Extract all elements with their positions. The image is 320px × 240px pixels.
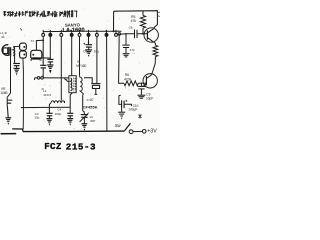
node: junction circle on base wire (x=119.3) with long vertical to R6	[118, 33, 124, 84]
svg-text:C8: C8	[129, 26, 133, 30]
svg-text:+3V: +3V	[147, 129, 157, 135]
label C9 10uF	[146, 93, 153, 101]
labels 2k / MF450	[76, 60, 86, 69]
battery jog at left end of bus	[12, 129, 23, 132]
wire: pin9 to C8 to Q1 base (y=33.8)	[117, 33, 147, 36]
IC U1 pins 1-9 (stub + terminal circle each)	[42, 30, 118, 36]
wire: T2 bottom lead to C5	[70, 93, 72, 108]
transistor Q2 (NPN, output)	[143, 74, 157, 88]
wire: pin6 down to C6 (x=88.5)	[88, 36, 90, 44]
capacitor C2 (pin1 coupling plates)	[40, 64, 46, 66]
resistor R6 470k (Q2 base, horizontal)	[124, 81, 138, 86]
capacitor C1 (AGC/tap bypass) with ground	[13, 55, 20, 68]
labels C3 10u / C4 100p (tank caps)	[34, 108, 61, 120]
svg-text:4t: 4t	[39, 58, 42, 62]
capacitor C9 (Q2 emitter bypass) with ground	[138, 83, 145, 95]
capacitor C4 (tank, left) with ground	[48, 107, 50, 113]
ground (below C10)	[118, 112, 125, 119]
svg-text:MF450: MF450	[76, 64, 86, 68]
variable capacitor VC1 with arrow and ground	[80, 111, 90, 124]
svg-text:215-3: 215-3	[66, 141, 96, 152]
svg-text:10µ: 10µ	[34, 116, 39, 120]
ground (below C1)	[14, 68, 20, 75]
wire: Vcc vertical from IC bar up (x=113.5) with junction dot	[113, 11, 115, 32]
T2 secondary winding (curly, right of box)	[80, 76, 84, 96]
label 3.5M / 4t (antenna notes)	[0, 28, 22, 39]
ground (below C4)	[46, 119, 52, 126]
wire: pin5 down (x=79.5)	[79, 36, 81, 75]
antenna coil winding (bumps)	[13, 47, 14, 56]
svg-text:4F9.5: 4F9.5	[43, 93, 51, 97]
switch S1 (power)	[124, 123, 146, 133]
IFT T1 secondary C (blob with dot)	[31, 50, 42, 59]
ground (below C6)	[85, 50, 92, 57]
svg-text:10µF: 10µF	[146, 97, 153, 101]
svg-text:100µF: 100µF	[128, 108, 137, 112]
wire: pin8 down to bottom bus (x=106.5)	[106, 36, 108, 131]
label C10 100uF	[128, 104, 138, 112]
svg-text:100p: 100p	[55, 112, 62, 116]
IFT T1 winding A (blob with dot)	[20, 43, 27, 50]
svg-text:u 4t7: u 4t7	[87, 98, 94, 102]
caption: handwritten title 'AM double-super receiver' (squiggle text)	[4, 10, 77, 17]
wire: antenna cold end down left column (x=10.5)	[7, 56, 10, 97]
label VC1 30P	[90, 115, 96, 123]
transistor Q1 (NPN, first AF amp)	[144, 28, 158, 43]
wire: pin7 down (x=96.9)	[96, 36, 98, 83]
svg-text:4A: 4A	[1, 35, 5, 39]
svg-text:CF455K: CF455K	[83, 105, 98, 110]
wire: local net y=77.9 with two terminal circles	[34, 77, 69, 80]
wire: T1 winding B down to bus (x=23.4)	[22, 58, 25, 129]
wire: top supply rail	[114, 11, 158, 28]
svg-text:Sw: Sw	[115, 123, 122, 128]
ground (below VR1)	[5, 118, 11, 125]
wire: pin1 down (x=43.2)	[42, 36, 44, 65]
resistor (Q1 emitter, vertical) and wire to Q2 collector	[152, 42, 158, 74]
label C6 10u	[83, 49, 99, 53]
potentiometer VR1 (volume) with ground	[7, 97, 12, 117]
label VR 10kB	[0, 87, 7, 95]
ground (below VC1)	[82, 124, 88, 131]
capacitor C10 100uF output coupling (electrolytic) with ground	[119, 96, 131, 112]
wire: bottom supply bus	[23, 130, 124, 133]
small winding bumps left of T2 on y=77.9 net	[65, 78, 69, 82]
svg-text:30P: 30P	[90, 119, 95, 123]
IF transformer T2 (boxed)	[69, 76, 76, 93]
stray marks top right corner	[158, 12, 160, 16]
wire: pin2 down (x=50.3)	[49, 36, 51, 59]
svg-text:47k: 47k	[131, 19, 137, 23]
IFT T1 winding B (blob with dot)	[20, 51, 27, 58]
ground (below C9)	[137, 95, 145, 98]
svg-text:10kB: 10kB	[0, 91, 7, 95]
capacitor C7 (Q1 base bypass) with ground	[122, 33, 129, 53]
svg-text:473: 473	[130, 48, 135, 52]
bar antenna L1 (arc + core box)	[2, 45, 10, 56]
trimmer capacitor CT1 (line + box plates)	[91, 84, 100, 95]
capacitor C6 10u (electrolytic) with ground	[86, 44, 93, 46]
wire: T1 secondary top to pin1 column	[36, 40, 43, 50]
capacitor C5 (tank, right) with ground	[69, 107, 71, 113]
ground (below C5)	[67, 119, 73, 126]
wire: winding bottom to VC1	[82, 95, 84, 111]
wire: stub from x=23.4 to net y=107.4	[21, 107, 24, 109]
label R5 47k	[131, 15, 137, 23]
op-amp/IC U1 LA-1600 body bar	[43, 30, 121, 32]
wire: pin3 down (x=61.3)	[60, 36, 62, 100]
resistor R5 47k (base bias, vertical)	[140, 11, 145, 35]
wire: net y=107.4 (osc tank bottom)	[21, 106, 70, 108]
label block 4x7 / CF455K	[83, 98, 98, 110]
wire: pin4 down into T2 (x=71.7)	[71, 36, 73, 75]
wire + ground (below pin2 cap)	[49, 62, 51, 65]
oscillator coil L2 (horizontal bumps)	[51, 101, 65, 103]
label L2 4F9.5	[43, 89, 51, 97]
svg-text:T1: T1	[31, 39, 35, 43]
label R6 470k	[124, 73, 132, 81]
capacitor C3 (pin2 bypass)	[47, 58, 53, 60]
wire: C2 bottom to local bus y=77.9	[42, 68, 44, 78]
capacitor C8 coupling (vertical plates)	[135, 30, 138, 39]
stray asterisk mark	[138, 114, 141, 119]
wire: T1 secondary bottom to pin2 column (y=58)	[31, 58, 50, 61]
svg-text:C6: C6	[83, 49, 87, 53]
svg-text:10µ: 10µ	[94, 49, 100, 53]
ground (below C7)	[123, 54, 130, 57]
wire: net y=77.7 feeding trimmer	[84, 78, 92, 83]
svg-text:FCZ: FCZ	[44, 141, 62, 152]
